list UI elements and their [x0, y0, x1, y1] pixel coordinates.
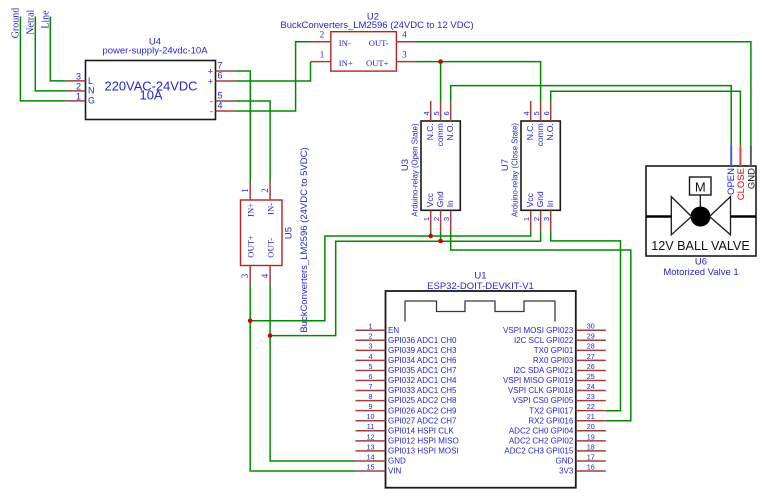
junction 5V at U3 Vcc — [428, 234, 433, 239]
wire U5 OUT+ 5V rail to relay Vcc — [250, 231, 531, 321]
valve left triangle — [671, 197, 691, 235]
U1 pin 17 GND — [556, 452, 606, 465]
valve body text 12V BALL VALVE — [651, 239, 749, 253]
svg-text:IN+: IN+ — [339, 58, 353, 68]
svg-text:23: 23 — [587, 392, 595, 401]
svg-text:17: 17 — [587, 452, 595, 461]
svg-text:GPI026 ADC2 CH9: GPI026 ADC2 CH9 — [388, 406, 457, 415]
U6 reference label — [695, 256, 707, 267]
svg-text:4: 4 — [369, 352, 373, 361]
U1 pin 16 3V3 — [559, 462, 606, 475]
U1 pin 24 VSPI CLK GPI018 — [508, 382, 606, 395]
U1 pin 21 RX2 GPI016 — [528, 412, 605, 425]
wire U2 OUT- to valve GND — [416, 42, 751, 146]
svg-text:11: 11 — [367, 422, 374, 431]
svg-text:20: 20 — [587, 422, 595, 431]
U7 pin 4 N.C. — [522, 101, 535, 140]
svg-text:4: 4 — [522, 111, 531, 115]
svg-text:Gnd: Gnd — [535, 191, 545, 207]
svg-text:25: 25 — [587, 372, 595, 381]
svg-text:8: 8 — [369, 392, 373, 401]
svg-text:4: 4 — [402, 30, 407, 40]
U1 pin 2 GPI036 ADC1 CH0 — [356, 332, 458, 345]
U1 pin 11 GPI014 HSPI CLK — [356, 422, 455, 435]
svg-text:5: 5 — [532, 111, 541, 115]
svg-text:comm: comm — [435, 123, 445, 146]
buck converter U5 — [241, 200, 283, 266]
U1 pin 4 GPI034 ADC1 CH6 — [356, 352, 458, 365]
U1 pin 5 GPI035 ADC1 CH7 — [356, 362, 458, 375]
svg-text:12V BALL VALVE: 12V BALL VALVE — [651, 239, 749, 253]
svg-text:6: 6 — [442, 111, 451, 115]
svg-text:22: 22 — [587, 402, 595, 411]
svg-text:12: 12 — [367, 432, 375, 441]
svg-text:I2C SDA GPI021: I2C SDA GPI021 — [513, 366, 574, 375]
wire ESP32 TX2 GPI017 to U7 In — [551, 231, 621, 411]
svg-text:21: 21 — [587, 412, 595, 421]
U1 value label ESP32-DOIT-DEVKIT-V1 — [427, 281, 534, 292]
wire U2 OUT+ to U3 comm and U7 comm — [416, 62, 541, 101]
U5 pin 1 IN+ — [240, 181, 256, 217]
svg-text:VSPI CLK GPI018: VSPI CLK GPI018 — [508, 386, 574, 395]
U5 pin 3 OUT+ — [240, 235, 256, 285]
U2 pin 3 OUT+ — [366, 49, 416, 68]
svg-text:5: 5 — [432, 111, 441, 115]
svg-text:GPI034 ADC1 CH6: GPI034 ADC1 CH6 — [388, 356, 457, 365]
U7 pin 6 N.O. — [542, 101, 555, 141]
U1 pin 19 ADC2 CH2 GPI02 — [509, 432, 606, 445]
U4 pin 5 - — [210, 91, 236, 107]
U3 pin 1 Vcc — [422, 192, 435, 230]
svg-text:Motorized Valve 1: Motorized Valve 1 — [663, 267, 738, 278]
svg-text:24: 24 — [587, 382, 595, 391]
svg-text:13: 13 — [367, 442, 375, 451]
net label Ground — [11, 8, 22, 39]
svg-text:1: 1 — [320, 49, 325, 59]
U1 pin 13 GPI013 HSPI MOSI — [356, 442, 459, 455]
microcontroller U1 ESP32 — [386, 291, 576, 488]
U4 pin 3 L — [65, 71, 93, 86]
U2 pin 1 IN+ — [311, 49, 353, 68]
U5 pin 4 OUT- — [260, 238, 276, 286]
U1 pin 8 GPI025 ADC2 CH8 — [356, 392, 458, 405]
U1 pin 12 GPI012 HSPI MISO — [356, 432, 459, 445]
U1 pin 1 EN — [356, 322, 400, 335]
svg-text:GPI035 ADC1 CH7: GPI035 ADC1 CH7 — [388, 366, 457, 375]
svg-text:3: 3 — [369, 342, 373, 351]
net label Line — [40, 10, 51, 29]
svg-text:6: 6 — [369, 372, 373, 381]
svg-text:Arduino-relay (Open State): Arduino-relay (Open State) — [410, 123, 419, 217]
svg-text:GPI039 ADC1 CH3: GPI039 ADC1 CH3 — [388, 346, 457, 355]
junction on 12V at U3 comm branch — [438, 59, 443, 64]
svg-text:1: 1 — [76, 91, 81, 101]
svg-text:2: 2 — [369, 332, 373, 341]
U2 pin 4 OUT- — [369, 30, 416, 49]
svg-text:3: 3 — [402, 49, 407, 59]
svg-text:I2C SCL GPI022: I2C SCL GPI022 — [514, 336, 574, 345]
svg-text:RX2 GPI016: RX2 GPI016 — [528, 416, 573, 425]
U3 pin 2 Gnd — [432, 191, 445, 231]
svg-text:ADC2 CH2 GPI02: ADC2 CH2 GPI02 — [509, 436, 574, 445]
svg-text:CLOSE: CLOSE — [736, 168, 747, 200]
wire branch gnd to U3 Gnd — [440, 231, 442, 241]
valve right pipe — [731, 215, 757, 217]
valve pin CLOSE — [736, 145, 747, 200]
svg-text:VIN: VIN — [388, 467, 402, 476]
svg-text:GPI027 ADC2 CH7: GPI027 ADC2 CH7 — [388, 416, 457, 425]
svg-text:3: 3 — [76, 71, 81, 81]
svg-text:+: + — [208, 76, 213, 86]
U4 pin 6 + — [208, 71, 236, 87]
svg-text:4: 4 — [422, 111, 431, 115]
wire U5 OUT- gnd rail to relay Gnd — [270, 231, 540, 336]
U4 pin 7 + — [208, 61, 236, 77]
svg-text:ESP32-DOIT-DEVKIT-V1: ESP32-DOIT-DEVKIT-V1 — [427, 281, 534, 292]
U3 pin 6 N.O. — [442, 101, 455, 141]
valve motor stem — [699, 195, 701, 207]
svg-text:15: 15 — [367, 462, 375, 471]
U4 body text 220VAC-24VDC 10A — [105, 79, 198, 103]
svg-text:G: G — [88, 96, 95, 106]
svg-text:19: 19 — [587, 432, 595, 441]
wire Ground to U4 pin 1 — [20, 17, 65, 101]
svg-text:2: 2 — [76, 81, 81, 91]
U1 pin 15 VIN — [356, 462, 402, 475]
svg-text:GPI032 ADC1 CH4: GPI032 ADC1 CH4 — [388, 376, 457, 385]
U1 pin 28 TX0 GPI01 — [534, 342, 606, 355]
svg-text:3: 3 — [442, 217, 451, 221]
svg-text:VSPI MISO GPI019: VSPI MISO GPI019 — [503, 376, 574, 385]
svg-text:2: 2 — [260, 188, 270, 193]
svg-text:28: 28 — [587, 342, 595, 351]
valve ball — [691, 207, 711, 227]
svg-text:power-supply-24vdc-10A: power-supply-24vdc-10A — [102, 46, 208, 57]
svg-text:4: 4 — [218, 101, 223, 111]
relay module U7 — [521, 121, 560, 210]
U3 reference label — [400, 159, 411, 171]
svg-text:30: 30 — [587, 322, 595, 331]
svg-text:In: In — [545, 200, 555, 207]
svg-text:TX0 GPI01: TX0 GPI01 — [534, 346, 574, 355]
wire U7 N.O. to valve CLOSE — [551, 91, 741, 145]
svg-text:7: 7 — [218, 61, 223, 71]
U3 pin 4 N.C. — [422, 101, 435, 140]
U4 value label power-supply-24vdc-10A — [102, 46, 208, 57]
svg-text:ADC2 CH0 GPI04: ADC2 CH0 GPI04 — [509, 426, 574, 435]
svg-text:+: + — [208, 66, 213, 76]
wire Line to U4 pin 3 — [50, 17, 65, 81]
wire ESP32 RX2 GPI016 to U3 In — [451, 231, 631, 421]
U2 pin 2 IN- — [311, 30, 351, 49]
svg-text:GND: GND — [556, 457, 574, 466]
wire gnd down to ESP32 GND — [270, 336, 355, 461]
svg-text:BuckConverters_LM2596 (24VDC t: BuckConverters_LM2596 (24VDC to 5VDC) — [299, 147, 310, 332]
svg-text:5: 5 — [218, 91, 223, 101]
svg-text:BuckConverters_LM2596 (24VDC t: BuckConverters_LM2596 (24VDC to 12 VDC) — [280, 20, 473, 31]
svg-text:TX2 GPI017: TX2 GPI017 — [529, 406, 574, 415]
svg-text:3: 3 — [542, 217, 551, 221]
relay module U3 — [421, 121, 460, 210]
svg-text:26: 26 — [587, 362, 595, 371]
svg-text:GPI025 ADC2 CH8: GPI025 ADC2 CH8 — [388, 396, 457, 405]
svg-text:7: 7 — [369, 382, 373, 391]
U1 reference label — [474, 271, 486, 282]
U1 pin 22 TX2 GPI017 — [529, 402, 606, 415]
svg-text:10: 10 — [367, 412, 375, 421]
U4 pin 2 N — [65, 81, 94, 95]
U1 pin 25 VSPI MISO GPI019 — [503, 372, 606, 385]
svg-text:Vcc: Vcc — [525, 192, 535, 207]
svg-text:ADC2 CH3 GPI015: ADC2 CH3 GPI015 — [504, 447, 573, 456]
U1 pin 27 RX0 GPI03 — [533, 352, 606, 365]
svg-text:GND: GND — [746, 168, 757, 189]
valve pin GND — [746, 145, 757, 189]
svg-text:EN: EN — [388, 326, 399, 335]
svg-text:IN+: IN+ — [246, 203, 256, 217]
svg-text:IN-: IN- — [266, 203, 276, 215]
svg-text:1: 1 — [422, 217, 431, 221]
svg-text:IN-: IN- — [339, 38, 351, 48]
svg-text:-: - — [210, 106, 213, 116]
U2 reference label — [367, 12, 379, 23]
wire U4 pin6 +24V to U2 IN+ — [236, 62, 311, 81]
svg-text:6: 6 — [542, 111, 551, 115]
svg-text:27: 27 — [587, 352, 595, 361]
U1 pin 26 I2C SDA GPI021 — [513, 362, 606, 375]
svg-text:VSPI MOSI GPI023: VSPI MOSI GPI023 — [503, 326, 574, 335]
svg-text:1: 1 — [240, 188, 250, 193]
svg-text:1: 1 — [522, 217, 531, 221]
valve left pipe — [646, 215, 672, 217]
svg-text:5: 5 — [369, 362, 373, 371]
U1 pin 18 ADC2 CH3 GPI015 — [504, 442, 605, 455]
svg-text:4: 4 — [260, 273, 270, 278]
wire U4 pin5 -24V to U5 pin2 — [236, 101, 271, 181]
svg-text:10A: 10A — [140, 88, 163, 103]
svg-text:M: M — [695, 180, 706, 195]
svg-text:GPI013 HSPI MOSI: GPI013 HSPI MOSI — [388, 447, 459, 456]
wire branch to U3 comm — [440, 62, 442, 101]
svg-text:OUT-: OUT- — [266, 238, 276, 258]
U1 pin 6 GPI032 ADC1 CH4 — [356, 372, 458, 385]
U1 pin 20 ADC2 CH0 GPI04 — [509, 422, 606, 435]
net label Netral — [26, 9, 37, 34]
svg-text:29: 29 — [587, 332, 595, 341]
svg-text:GPI014 HSPI CLK: GPI014 HSPI CLK — [388, 426, 454, 435]
svg-text:1: 1 — [369, 322, 373, 331]
U1 pin 23 VSPI CS0 GPI05 — [512, 392, 605, 405]
U1 pin 9 GPI026 ADC2 CH9 — [356, 402, 458, 415]
svg-text:U5: U5 — [284, 227, 295, 239]
U5 pin 2 IN- — [260, 181, 276, 215]
U7 pin 2 Gnd — [532, 191, 545, 231]
valve motor M box — [690, 177, 712, 195]
U1 pin 10 GPI027 ADC2 CH7 — [356, 412, 458, 425]
svg-text:3V3: 3V3 — [559, 467, 574, 476]
svg-text:2: 2 — [320, 30, 325, 40]
svg-text:Gnd: Gnd — [435, 191, 445, 207]
U3 pin 5 comm — [432, 101, 445, 146]
svg-text:GPI033 ADC1 CH5: GPI033 ADC1 CH5 — [388, 386, 457, 395]
svg-text:18: 18 — [587, 442, 595, 451]
U5 reference label — [284, 227, 295, 239]
svg-text:N: N — [88, 85, 95, 95]
U1 pin 14 GND — [356, 452, 407, 465]
wire 5V down to ESP32 VIN — [250, 321, 355, 471]
U1 pin 7 GPI033 ADC1 CH5 — [356, 382, 458, 395]
svg-text:comm: comm — [535, 123, 545, 146]
valve right triangle — [710, 197, 731, 235]
svg-text:GPI036 ADC1 CH0: GPI036 ADC1 CH0 — [388, 336, 457, 345]
svg-text:VSPI CS0 GPI05: VSPI CS0 GPI05 — [512, 396, 573, 405]
wire U4 pin4 -24V to U2 IN- — [236, 42, 311, 111]
svg-text:14: 14 — [367, 452, 375, 461]
U1 pin 29 I2C SCL GPI022 — [514, 332, 606, 345]
svg-text:2: 2 — [532, 217, 541, 221]
U4 pin 4 - — [210, 101, 236, 117]
buck converter U2 — [331, 32, 397, 71]
U7 pin 1 Vcc — [522, 192, 535, 230]
svg-text:U6: U6 — [695, 256, 707, 267]
svg-text:2: 2 — [432, 217, 441, 221]
svg-text:GND: GND — [388, 457, 406, 466]
svg-text:6: 6 — [218, 71, 223, 81]
power supply U4 — [86, 61, 216, 120]
U1 module outline drawing — [405, 301, 555, 322]
wire U4 pin7 +24V to U5 pin1 — [236, 71, 251, 181]
U3 value label Arduino-relay (Open State) — [410, 123, 419, 217]
svg-text:N.C.: N.C. — [525, 123, 535, 140]
svg-text:3: 3 — [240, 273, 250, 278]
svg-text:16: 16 — [587, 462, 595, 471]
junction gnd split — [268, 333, 273, 338]
svg-text:Arduino-relay (Close State): Arduino-relay (Close State) — [510, 123, 519, 217]
svg-text:GPI012 HSPI MISO: GPI012 HSPI MISO — [388, 436, 459, 445]
svg-text:N.O.: N.O. — [545, 123, 555, 140]
svg-text:OUT-: OUT- — [369, 38, 389, 48]
svg-text:-: - — [210, 96, 213, 106]
U4 pin 1 G — [65, 91, 95, 105]
U2 value label BuckConverters_LM2596 (24VDC to 12 VDC) — [280, 20, 473, 31]
U1 pin 30 VSPI MOSI GPI023 — [503, 322, 606, 335]
svg-text:RX0 GPI03: RX0 GPI03 — [533, 356, 574, 365]
wire Netral to U4 pin 2 — [35, 17, 65, 91]
U3 pin 3 In — [442, 200, 455, 231]
svg-text:Vcc: Vcc — [425, 192, 435, 207]
valve pin OPEN — [726, 145, 737, 195]
U7 pin 3 In — [542, 200, 555, 231]
wire U3 N.O. to valve OPEN — [451, 86, 732, 146]
U1 pin 3 GPI039 ADC1 CH3 — [356, 342, 458, 355]
U4 reference label — [149, 37, 161, 48]
U6 value label Motorized Valve 1 — [663, 267, 738, 278]
wire branch 5V to U3 Vcc — [430, 231, 432, 236]
junction gnd at U3 Gnd — [438, 239, 443, 244]
junction 5V split — [248, 319, 253, 324]
svg-text:OUT+: OUT+ — [246, 235, 256, 258]
svg-text:In: In — [445, 200, 455, 207]
U7 reference label — [500, 159, 511, 171]
U5 value label BuckConverters_LM2596 (24VDC to 5VDC) — [299, 147, 310, 332]
motorized ball valve U6 — [646, 166, 756, 256]
svg-text:N.C.: N.C. — [425, 123, 435, 140]
svg-text:OUT+: OUT+ — [366, 58, 389, 68]
U7 value label Arduino-relay (Close State) — [510, 123, 519, 217]
svg-text:N.O.: N.O. — [445, 123, 455, 140]
svg-text:9: 9 — [369, 402, 373, 411]
U7 pin 5 comm — [532, 101, 545, 146]
